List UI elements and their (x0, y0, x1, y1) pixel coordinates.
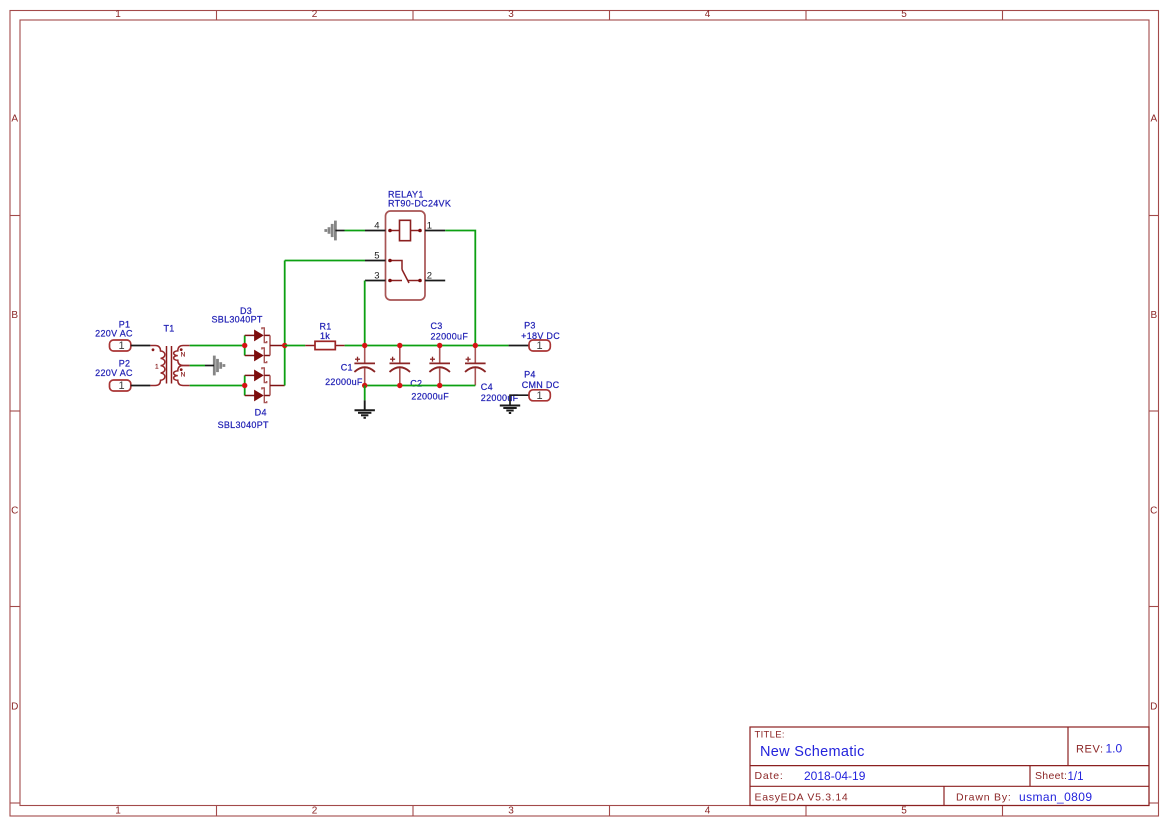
svg-text:SBL3040PT: SBL3040PT (218, 420, 269, 430)
svg-text:1: 1 (427, 220, 432, 231)
svg-text:Sheet:: Sheet: (1035, 770, 1067, 782)
svg-text:C1: C1 (341, 362, 353, 372)
svg-text:CMN DC: CMN DC (522, 380, 560, 390)
svg-text:Drawn By:: Drawn By: (956, 792, 1012, 804)
svg-text:1: 1 (118, 340, 124, 352)
junction dots on rails (362, 343, 367, 348)
capacitor C3 (429, 346, 450, 386)
svg-text:B: B (11, 310, 18, 321)
capacitor C1 (354, 346, 375, 386)
svg-text:N: N (181, 352, 186, 359)
svg-text:1: 1 (536, 340, 542, 352)
svg-text:1: 1 (115, 9, 121, 20)
transformer phase dots (152, 348, 155, 351)
svg-text:A: A (1150, 114, 1157, 125)
svg-text:C4: C4 (481, 382, 493, 392)
svg-text:Date:: Date: (755, 770, 784, 782)
svg-text:2: 2 (427, 270, 432, 281)
svg-text:N: N (181, 372, 186, 379)
svg-text:P4: P4 (524, 370, 536, 380)
svg-text:1k: 1k (320, 331, 330, 341)
junction dot rectifier node (282, 343, 287, 348)
transformer T1 (150, 346, 189, 386)
chassis ground at center tap (214, 356, 224, 376)
relay RELAY1 (365, 211, 445, 300)
svg-text:5: 5 (901, 9, 907, 20)
svg-text:P3: P3 (524, 321, 536, 331)
capacitor C2 (390, 346, 411, 386)
wire relay pin5 to node (285, 260, 365, 262)
svg-text:5: 5 (901, 806, 907, 817)
svg-text:2: 2 (312, 806, 318, 817)
resistor R1 (305, 341, 344, 349)
capacitor C4 (465, 346, 486, 386)
wire rectifier output bus (284, 261, 286, 386)
transformer core (166, 346, 168, 384)
svg-text:1.0: 1.0 (1106, 742, 1123, 756)
svg-text:RT90-DC24VK: RT90-DC24VK (388, 198, 451, 208)
wire relay pin1 to +18V rail (445, 231, 475, 346)
svg-text:2018-04-19: 2018-04-19 (804, 769, 866, 783)
relay pin 4 (365, 230, 386, 232)
svg-text:T1: T1 (163, 324, 174, 334)
svg-text:22000uF: 22000uF (411, 392, 449, 402)
svg-text:C2: C2 (410, 378, 422, 388)
svg-text:SBL3040PT: SBL3040PT (211, 315, 262, 325)
svg-text:C: C (11, 506, 18, 517)
svg-text:R1: R1 (320, 322, 332, 332)
svg-text:1: 1 (118, 380, 124, 392)
svg-text:New Schematic: New Schematic (760, 744, 865, 760)
svg-text:3: 3 (374, 270, 379, 281)
diode D4 (245, 368, 285, 403)
svg-text:REV:: REV: (1076, 744, 1104, 756)
svg-text:EasyEDA V5.3.14: EasyEDA V5.3.14 (755, 792, 849, 804)
svg-text:22000uF: 22000uF (431, 331, 469, 341)
svg-text:3: 3 (508, 9, 514, 20)
svg-text:2: 2 (312, 9, 318, 20)
chassis ground at relay pin 4 (326, 221, 336, 241)
svg-text:220V AC: 220V AC (95, 329, 133, 339)
relay pin 2 (425, 280, 445, 282)
svg-text:usman_0809: usman_0809 (1019, 790, 1092, 804)
wire negative rail (365, 385, 476, 387)
svg-text:5: 5 (374, 250, 379, 261)
wire rail to ground (364, 386, 366, 401)
svg-text:1: 1 (155, 363, 159, 370)
ground below C1 (355, 400, 375, 418)
wire node to R1 (285, 345, 306, 347)
port P4 (510, 390, 550, 405)
svg-text:B: B (1150, 310, 1157, 321)
svg-text:C3: C3 (431, 321, 443, 331)
junction dot D3 input (242, 343, 247, 348)
svg-text:1/1: 1/1 (1068, 771, 1084, 783)
wire relay pin3 down to rail (364, 281, 366, 346)
svg-text:4: 4 (374, 220, 379, 231)
title block (750, 727, 1149, 806)
svg-text:A: A (11, 114, 18, 125)
relay pin 3 (365, 280, 386, 282)
port P2 (110, 380, 151, 392)
relay pin 1 (425, 230, 445, 232)
svg-text:D: D (1150, 702, 1157, 713)
wire R1 to P3 rail (345, 345, 509, 347)
wire secondary bottom (190, 385, 245, 387)
port P3 (509, 340, 551, 352)
svg-text:4: 4 (705, 9, 711, 20)
svg-text:D4: D4 (255, 407, 267, 417)
svg-text:220V AC: 220V AC (95, 368, 133, 378)
port P1 (110, 340, 151, 352)
svg-text:1: 1 (115, 806, 121, 817)
svg-text:3: 3 (508, 806, 514, 817)
svg-text:+18V DC: +18V DC (521, 331, 560, 341)
wire center tap (190, 365, 205, 367)
svg-text:C: C (1150, 506, 1157, 517)
svg-text:1: 1 (536, 390, 542, 402)
relay pin 5 (365, 260, 386, 262)
wire ground to relay pin4 (345, 230, 366, 232)
svg-text:TITLE:: TITLE: (755, 730, 785, 741)
ground at P4 (500, 406, 520, 414)
svg-text:D: D (11, 702, 18, 713)
svg-text:4: 4 (705, 806, 711, 817)
svg-text:22000uF: 22000uF (325, 377, 363, 387)
junction dot D4 input (242, 383, 247, 388)
diode D3 (245, 328, 285, 363)
wire secondary top (190, 345, 245, 347)
